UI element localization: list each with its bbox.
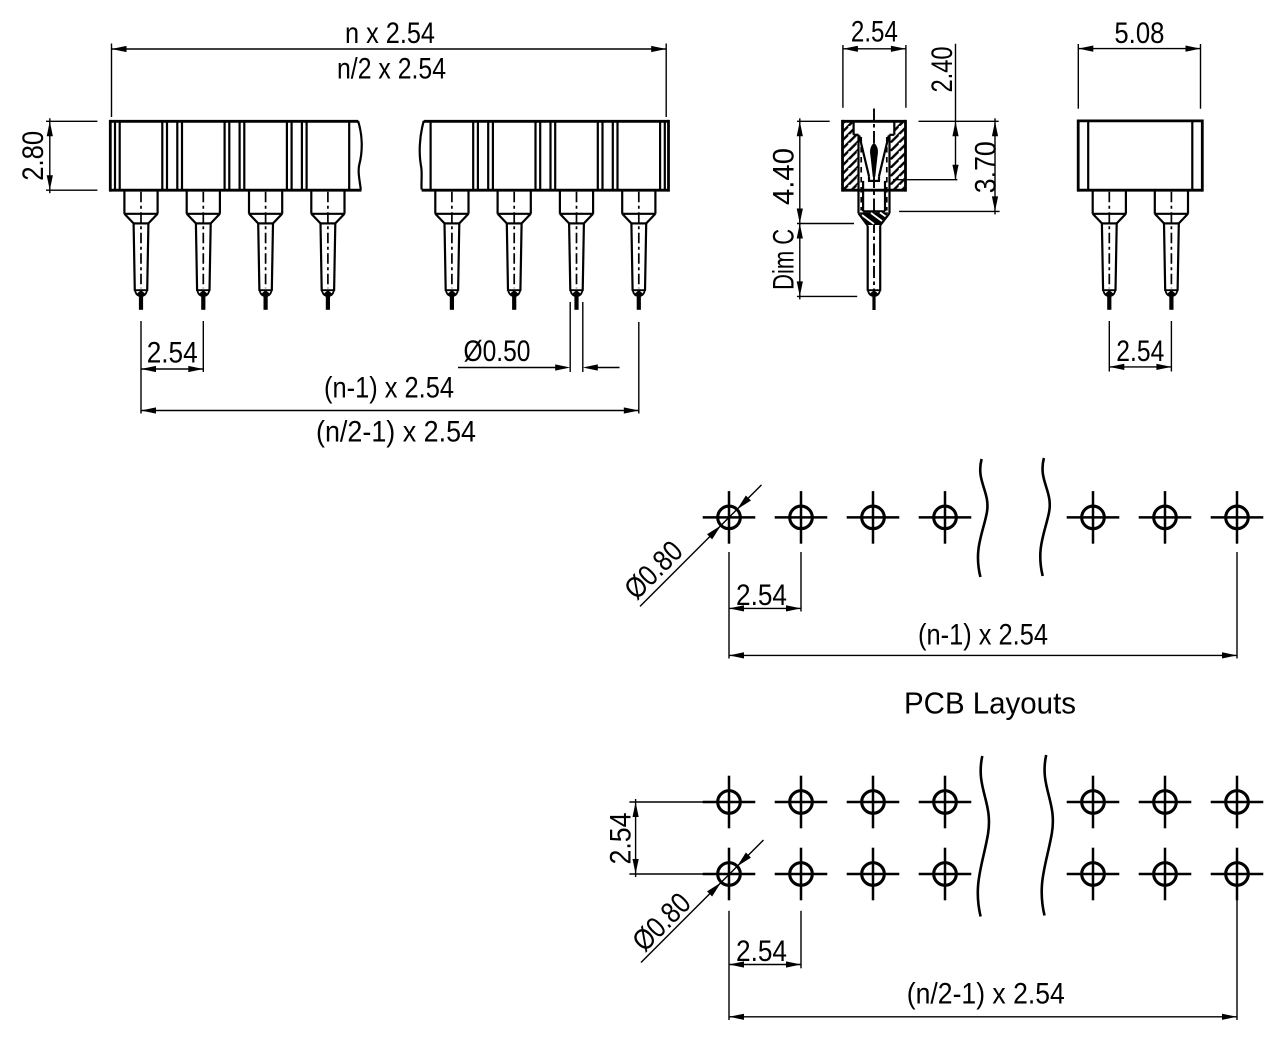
PCB hole row1-4 — [919, 491, 972, 544]
socket strip body left group outline — [110, 120, 361, 192]
dimension 3.70 section — [899, 118, 1002, 214]
section dimension 2.54 top — [843, 16, 906, 108]
svg-text:(n/2-1) x 2.54: (n/2-1) x 2.54 — [316, 416, 476, 449]
socket cell partition lines — [115, 121, 665, 190]
section crimp cone — [855, 212, 891, 226]
PCB hole row2bot-3 — [847, 848, 900, 901]
section centerline — [873, 109, 875, 311]
svg-text:2.54: 2.54 — [736, 935, 787, 968]
svg-text:2.40: 2.40 — [926, 47, 959, 93]
PCB hole row1-2 — [775, 491, 828, 544]
svg-text:2.54: 2.54 — [851, 16, 898, 49]
break lines double row — [978, 755, 1053, 917]
PCB hole row2bot-5 — [1067, 848, 1120, 901]
pin S1 — [1093, 190, 1126, 310]
svg-text:2.54: 2.54 — [736, 579, 787, 612]
section pin shaft — [868, 226, 881, 310]
PCB hole row2top-3 — [847, 776, 900, 829]
dimension 5.08 top right view — [1078, 17, 1200, 109]
dimension n x 2.54 top — [112, 17, 667, 117]
socket strip body right group outline — [422, 120, 669, 192]
svg-text:Ø0.50: Ø0.50 — [464, 335, 531, 368]
section contact funnel — [859, 136, 888, 181]
svg-text:2.54: 2.54 — [1116, 335, 1164, 368]
pin L3 — [249, 190, 282, 310]
PCB hole row2top-1 — [703, 776, 756, 829]
dimension Dim C section — [768, 224, 858, 300]
two-pin body outline — [1078, 120, 1202, 192]
section sleeve knurl dashed lines — [861, 137, 887, 211]
PCB hole row1-3 — [847, 491, 900, 544]
pin L4 — [311, 190, 344, 310]
svg-text:3.70: 3.70 — [970, 141, 1003, 193]
pin L1 — [124, 190, 157, 310]
svg-text:2.80: 2.80 — [17, 131, 50, 181]
svg-text:PCB Layouts: PCB Layouts — [904, 687, 1076, 721]
dimension Ø0.80 double row — [626, 840, 763, 963]
dimension 2.54 single row — [729, 552, 801, 659]
section bore inner walls — [863, 181, 885, 211]
PCB hole row2top-7 — [1211, 776, 1264, 829]
PCB hole row2bot-7 — [1211, 848, 1264, 901]
svg-text:(n/2-1) x 2.54: (n/2-1) x 2.54 — [907, 978, 1065, 1011]
PCB hole row2top-5 — [1067, 776, 1120, 829]
svg-text:n/2 x 2.54: n/2 x 2.54 — [337, 53, 446, 86]
svg-text:2.54: 2.54 — [605, 813, 638, 865]
PCB hole row1-1 — [703, 491, 756, 544]
pin R3 — [560, 190, 593, 310]
dimension Ø0.50 pin diameter — [458, 302, 620, 372]
dimension (n/2-1) x 2.54 double row — [729, 888, 1237, 1020]
PCB hole row2top-4 — [919, 776, 972, 829]
dimension (n-1) x 2.54 — [141, 322, 639, 414]
section sleeve outer walls — [859, 135, 890, 213]
PCB hole row2bot-1 — [703, 848, 756, 901]
section body hatched walls — [843, 121, 906, 190]
dimension 2.54 row spacing vertical — [605, 799, 710, 877]
dimension 2.54 pin pitch — [141, 321, 203, 414]
break line left group right end — [358, 121, 362, 190]
PCB hole row1-6 — [1139, 491, 1192, 544]
svg-text:4.40: 4.40 — [768, 148, 801, 205]
PCB hole row2bot-4 — [919, 848, 972, 901]
PCB hole row2bot-6 — [1139, 848, 1192, 901]
dimension Ø0.80 single row — [618, 485, 761, 607]
pin R4 — [622, 190, 655, 310]
PCB hole row1-5 — [1067, 491, 1120, 544]
svg-text:5.08: 5.08 — [1114, 17, 1164, 50]
dimension 2.54 double row pitch — [729, 911, 801, 1020]
svg-text:(n-1) x 2.54: (n-1) x 2.54 — [918, 619, 1048, 652]
svg-text:Dim C: Dim C — [768, 229, 801, 290]
pin R2 — [498, 190, 531, 310]
svg-text:(n-1) x 2.54: (n-1) x 2.54 — [324, 372, 454, 405]
PCB hole row2top-2 — [775, 776, 828, 829]
svg-text:n x 2.54: n x 2.54 — [345, 17, 435, 50]
section body outline — [843, 120, 906, 192]
dimension 4.40 section — [768, 118, 855, 226]
PCB hole row1-7 — [1211, 491, 1264, 544]
svg-text:2.54: 2.54 — [147, 337, 198, 370]
PCB hole row2bot-2 — [775, 848, 828, 901]
dimension 2.40 section — [893, 44, 999, 180]
dimension 2.80 body height — [17, 118, 97, 193]
section counterbore — [854, 121, 895, 135]
pin S2 — [1155, 190, 1188, 310]
break lines single row — [978, 458, 1050, 577]
break line right group left end — [420, 121, 424, 190]
pin R1 — [435, 190, 468, 310]
dimension 2.54 two-pin view — [1109, 321, 1171, 372]
dimension (n-1) x 2.54 single row — [729, 552, 1237, 659]
pin L2 — [187, 190, 220, 310]
PCB hole row2top-6 — [1139, 776, 1192, 829]
section inserted pin silhouette — [871, 143, 878, 176]
